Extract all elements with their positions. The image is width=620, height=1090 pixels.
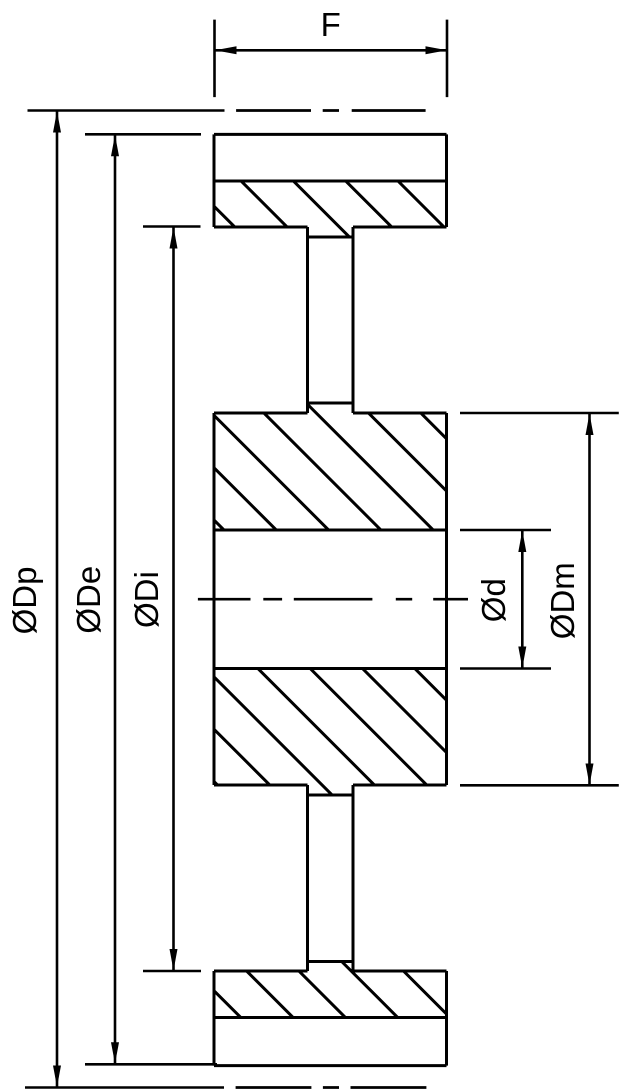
svg-text:F: F (321, 6, 341, 43)
svg-text:ØDi: ØDi (128, 571, 165, 628)
svg-text:ØDm: ØDm (544, 562, 581, 639)
svg-text:ØDp: ØDp (6, 567, 43, 635)
svg-text:Ød: Ød (475, 578, 512, 622)
svg-text:ØDe: ØDe (70, 566, 107, 634)
